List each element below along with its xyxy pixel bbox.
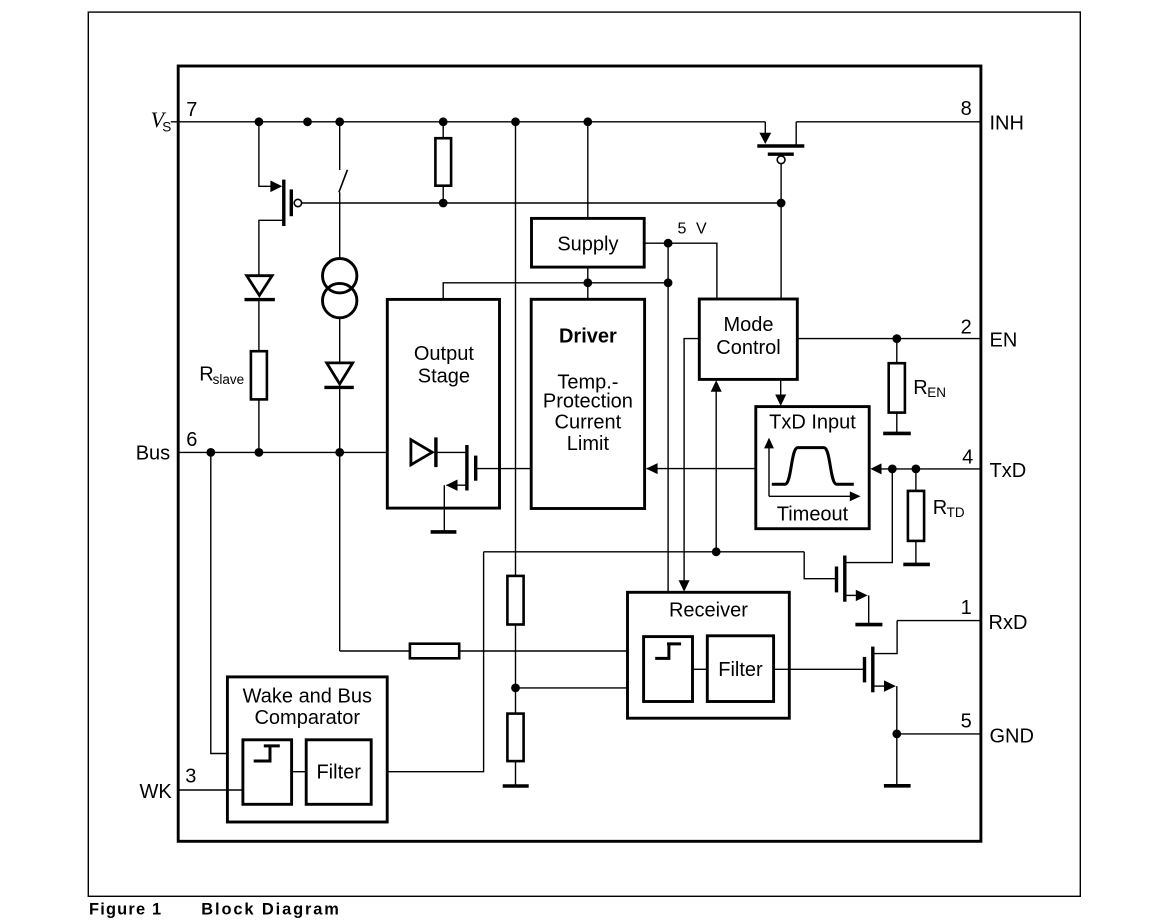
diode D3 triangle xyxy=(411,440,432,465)
wire R2 to gate row xyxy=(442,186,444,203)
node gate-row junction right xyxy=(777,199,786,208)
transistor Q1 gate bubble xyxy=(294,199,301,206)
wire Vs to Supply xyxy=(587,122,589,219)
svg-text:Timeout: Timeout xyxy=(777,504,849,526)
switch S1 blade xyxy=(339,170,348,193)
diode D1 triangle xyxy=(247,276,272,296)
wire I1 to D2 xyxy=(339,318,341,363)
wire wake comparator to Filter xyxy=(292,771,307,773)
wire Mode Control to TxD Input xyxy=(780,379,782,395)
wire GND pin xyxy=(897,733,981,735)
arrow into Driver xyxy=(646,463,658,474)
transistor Q1 gate bar xyxy=(290,189,293,216)
transistor Q1 channel bar xyxy=(282,180,285,226)
resistor REN xyxy=(889,363,905,412)
wire 5V rail xyxy=(443,283,668,300)
wire Q2 to ground xyxy=(443,485,445,532)
transistor Q3 source arrow xyxy=(759,133,771,144)
wire status to Q4 gate xyxy=(804,552,836,579)
wire Vs rail xyxy=(171,121,766,123)
wire Bus pin xyxy=(178,451,411,453)
node Vs junction 1 xyxy=(255,117,264,126)
TxD Input x-axis arrow xyxy=(850,491,861,501)
wire TxD to RTD xyxy=(915,469,917,491)
switch S1 top lead xyxy=(339,122,341,170)
transistor Q2 source arrow xyxy=(446,480,458,491)
arrow into Receiver xyxy=(679,580,690,592)
transistor Q3 gate bar xyxy=(768,152,794,155)
transistor Q5 channel bar xyxy=(871,647,874,693)
wire divider to Receiver xyxy=(516,687,644,689)
arrow into TxD Input xyxy=(775,395,786,407)
transistor Q5 source arrow xyxy=(884,680,896,691)
svg-text:2: 2 xyxy=(961,317,972,339)
wire Mode Control to Receiver xyxy=(684,339,699,581)
block wake Filter xyxy=(306,740,371,805)
wire status row xyxy=(484,551,805,553)
svg-text:EN: EN xyxy=(927,385,946,400)
svg-text:INH: INH xyxy=(990,113,1024,135)
resistor R3 xyxy=(410,644,459,659)
block Driver xyxy=(531,299,644,508)
resistor RTD xyxy=(908,491,924,541)
svg-text:8: 8 xyxy=(961,98,972,120)
node line A rail junction xyxy=(664,278,673,287)
svg-text:Stage: Stage xyxy=(418,366,470,388)
transistor Q5 gate bar xyxy=(863,657,866,683)
wire EN to REN xyxy=(896,339,898,364)
block Mode Control xyxy=(699,299,797,379)
Receiver schmitt symbol xyxy=(655,644,681,659)
arrow into Mode Control xyxy=(711,380,722,392)
transistor Q4 drain lead xyxy=(845,469,893,563)
svg-text:Filter: Filter xyxy=(718,659,763,681)
block Receiver Filter xyxy=(707,636,773,702)
transistor Q2 gate bar xyxy=(474,456,477,481)
svg-text:EN: EN xyxy=(990,330,1018,352)
wire WK pin xyxy=(178,789,243,791)
svg-text:Protection: Protection xyxy=(543,391,633,413)
wire RxD pin xyxy=(897,620,981,622)
svg-text:Figure 1: Figure 1 xyxy=(89,901,162,919)
wire REN to ground xyxy=(896,413,898,434)
svg-text:Current: Current xyxy=(555,412,622,434)
svg-text:GND: GND xyxy=(990,725,1034,747)
diode D2 triangle xyxy=(327,363,353,384)
wire Vs to R2 xyxy=(442,122,444,138)
node Bus junction 2 xyxy=(255,448,264,457)
node Vs junction 3 xyxy=(335,117,344,126)
wire R4 to R5 xyxy=(515,625,517,714)
node Vs junction 6 xyxy=(583,117,592,126)
node GND junction xyxy=(892,730,901,739)
node gate-row resistor junction xyxy=(439,199,448,208)
wire R5 to ground xyxy=(515,761,517,786)
svg-text:Receiver: Receiver xyxy=(669,599,748,621)
transistor Q1 arrow xyxy=(270,181,282,193)
node 5V rail junction mid xyxy=(583,278,592,287)
node Vs junction 5 xyxy=(511,117,520,126)
wire Filter to Q5 xyxy=(774,668,865,670)
transistor Q3 drain lead xyxy=(795,122,797,146)
node 5V junction xyxy=(664,239,673,248)
arrow into TxD Input right xyxy=(870,463,881,474)
node Bus junction 3 xyxy=(335,448,344,457)
diode D1 bar xyxy=(245,298,275,301)
switch S1 bottom lead xyxy=(339,192,341,258)
transistor Q4 source lead xyxy=(845,594,857,596)
resistor Rslave xyxy=(251,351,267,399)
svg-text:WK: WK xyxy=(140,781,173,803)
block Receiver xyxy=(628,592,790,718)
svg-text:Wake and Bus: Wake and Bus xyxy=(243,686,372,708)
svg-text:Output: Output xyxy=(414,343,474,365)
block Output Stage xyxy=(387,299,499,508)
svg-text:S: S xyxy=(162,119,171,134)
wire Vs to R4 xyxy=(515,122,517,576)
svg-text:5 V: 5 V xyxy=(678,221,710,238)
node Bus junction 1 xyxy=(206,448,215,457)
current source I1 circle B xyxy=(323,283,357,317)
block Supply xyxy=(532,218,645,267)
resistor R2 xyxy=(435,138,451,186)
wire Q3 gate to Mode Control xyxy=(780,164,782,299)
TxD Input y-axis arrow xyxy=(764,438,774,449)
transistor Q3 gate bubble xyxy=(777,156,785,164)
wire 5V down line A xyxy=(667,243,669,592)
wire Bus to comparator xyxy=(211,452,243,753)
svg-text:slave: slave xyxy=(213,372,245,387)
svg-text:TxD: TxD xyxy=(990,460,1027,482)
transistor Q2 channel bar xyxy=(465,445,468,491)
diode D3 bar xyxy=(434,437,437,467)
svg-text:Bus: Bus xyxy=(136,443,170,465)
svg-text:R: R xyxy=(933,497,947,519)
TxD Input x-axis xyxy=(769,495,850,497)
svg-text:RxD: RxD xyxy=(989,612,1028,634)
wire INH pin xyxy=(796,121,981,123)
wire gate row xyxy=(302,202,781,204)
wire D2 to Bus and down xyxy=(339,387,341,651)
node divider junction xyxy=(511,684,520,693)
svg-text:7: 7 xyxy=(186,99,197,121)
wake schmitt symbol xyxy=(254,746,280,761)
svg-text:Block Diagram: Block Diagram xyxy=(201,901,340,919)
svg-text:Comparator: Comparator xyxy=(254,707,360,729)
node Vs junction 4 xyxy=(439,117,448,126)
ground divider xyxy=(503,784,529,788)
ground REN xyxy=(883,432,911,436)
wire wake filter riser xyxy=(371,552,483,772)
svg-text:R: R xyxy=(199,363,213,385)
block Wake and Bus Comparator xyxy=(227,677,387,822)
transistor Q4 gate bar xyxy=(835,567,838,593)
svg-text:5: 5 xyxy=(961,711,972,733)
main block border xyxy=(178,66,981,841)
TxD Input pulse xyxy=(772,448,854,485)
node TxD junction 1 xyxy=(888,465,897,474)
wire Supply 5V out xyxy=(644,243,717,299)
transistor Q3 channel bar xyxy=(757,144,804,147)
wire Rslave to Bus xyxy=(258,399,260,452)
wire comparator to Filter xyxy=(693,668,708,670)
ground Q5 xyxy=(884,784,911,788)
wire Bus tap to R3 xyxy=(340,650,410,652)
svg-text:Filter: Filter xyxy=(316,762,361,784)
svg-text:4: 4 xyxy=(962,446,973,468)
resistor R5 xyxy=(507,714,523,762)
wire Q4 to ground xyxy=(868,595,870,624)
ground Q4 xyxy=(855,623,882,627)
transistor Q5 source lead xyxy=(873,685,885,687)
transistor Q1 source lead xyxy=(259,220,284,275)
resistor R4 xyxy=(507,576,523,625)
svg-text:6: 6 xyxy=(186,429,197,451)
svg-text:Supply: Supply xyxy=(557,234,618,256)
wire Q2 gate to Driver xyxy=(476,468,532,470)
node TxD junction 2 xyxy=(912,465,921,474)
transistor Q4 channel bar xyxy=(843,556,846,602)
node Vs junction 2 xyxy=(303,117,312,126)
wire TxD pin xyxy=(881,468,981,470)
svg-text:1: 1 xyxy=(961,597,972,619)
wire Q5 to ground xyxy=(896,686,898,786)
wire status to Mode Control xyxy=(715,392,717,552)
wire D3 to Q2 xyxy=(436,451,467,453)
ground RTD xyxy=(903,563,930,567)
svg-text:3: 3 xyxy=(185,765,196,787)
transistor Q2 source lead xyxy=(447,484,467,486)
block wake comparator xyxy=(243,740,292,805)
svg-text:Driver: Driver xyxy=(559,326,617,348)
wire Supply to Driver xyxy=(587,267,589,299)
svg-text:Control: Control xyxy=(716,337,780,359)
svg-text:Limit: Limit xyxy=(567,433,610,455)
ground Output Stage xyxy=(431,530,457,534)
svg-text:TD: TD xyxy=(947,505,965,520)
transistor Q4 source arrow xyxy=(856,590,868,601)
node EN junction xyxy=(892,334,901,343)
transistor Q5 drain lead xyxy=(873,621,897,654)
block TxD Input xyxy=(756,407,869,529)
wire RTD to ground xyxy=(915,541,917,565)
wire EN pin xyxy=(797,338,981,340)
wire D1 to Rslave xyxy=(258,300,260,352)
transistor Q1 drain lead xyxy=(259,122,271,187)
wire TxD Input to Driver xyxy=(646,468,755,470)
node status junction xyxy=(712,547,721,556)
svg-text:R: R xyxy=(913,377,927,399)
TxD Input y-axis xyxy=(768,448,770,497)
wire R3 to Receiver xyxy=(459,650,643,652)
svg-text:Mode: Mode xyxy=(723,314,773,336)
svg-text:TxD Input: TxD Input xyxy=(769,411,856,433)
current source I1 circle A xyxy=(323,259,357,293)
transistor Q3 source lead xyxy=(764,122,766,135)
block Receiver comparator xyxy=(644,637,693,702)
diode D2 bar xyxy=(324,386,353,389)
